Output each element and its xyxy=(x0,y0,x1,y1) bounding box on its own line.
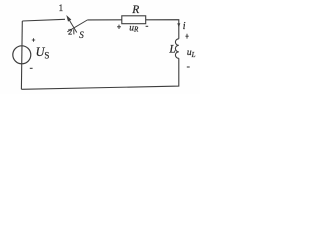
wire: resistor to top-right corner and down xyxy=(146,20,179,39)
current i arrowhead xyxy=(177,23,180,27)
label + (u_L polarity) xyxy=(185,34,188,39)
label minus (source polarity) xyxy=(30,67,33,69)
switch S blade line xyxy=(70,21,77,33)
wire: top-left horizontal to switch contact 1 xyxy=(22,19,65,21)
svg-text:S: S xyxy=(79,30,84,40)
label + (u_R polarity) xyxy=(117,25,121,29)
inductor L coil xyxy=(175,39,178,59)
label minus (u_R polarity) xyxy=(146,25,149,27)
wire: left vertical (through source) xyxy=(20,21,23,89)
svg-text:i: i xyxy=(183,21,186,32)
switch S pole line xyxy=(67,20,87,32)
svg-text:L: L xyxy=(168,44,175,56)
switch S blade arrowhead xyxy=(66,15,71,22)
switch contact 2 tick xyxy=(73,29,75,34)
wire: switch to resistor xyxy=(87,19,122,21)
svg-text:1: 1 xyxy=(59,3,64,13)
label + (source polarity) xyxy=(32,38,35,41)
voltage source U_S circle xyxy=(13,46,31,64)
label minus (u_L polarity) xyxy=(187,66,190,68)
background xyxy=(0,0,200,94)
svg-text:R: R xyxy=(131,4,139,16)
svg-text:2: 2 xyxy=(68,27,72,37)
svg-text:uR: uR xyxy=(129,23,139,33)
resistor R box xyxy=(122,16,146,24)
wire: right vertical below coil, bottom wire, to left corner xyxy=(21,58,178,89)
